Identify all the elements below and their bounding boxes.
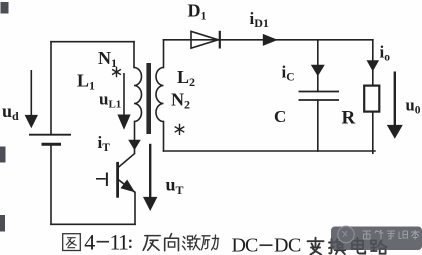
capacitor C plates — [299, 92, 340, 101]
caption char 换 — [329, 239, 345, 254]
wire top-left (battery loop to primary) — [51, 41, 134, 43]
watermark logo circle — [338, 226, 354, 242]
wire bottom-right rail — [164, 150, 376, 152]
polarity dot (asterisk) primary — [112, 67, 121, 77]
caption char 激 — [183, 235, 201, 250]
svg-text:1: 1 — [118, 229, 129, 254]
transistor collector diagonal — [119, 153, 136, 167]
caption char 图 — [63, 234, 81, 251]
wire capacitor branch lower — [317, 100, 319, 151]
wire resistor branch upper — [372, 40, 374, 86]
wire resistor branch lower — [372, 112, 374, 154]
caption char 变 — [308, 238, 324, 255]
wire primary bottom lead — [134, 122, 136, 154]
transistor body bar — [116, 162, 119, 198]
wire left vertical upper — [50, 42, 52, 134]
watermark small mark left-middle — [0, 147, 6, 163]
wire capacitor branch upper — [317, 40, 319, 92]
caption char 向 — [165, 234, 179, 251]
transistor V (switch) — [96, 153, 135, 198]
svg-text:D: D — [274, 235, 288, 255]
svg-text:D: D — [232, 235, 246, 255]
resistor R body — [364, 86, 379, 112]
svg-text:R: R — [342, 108, 356, 129]
arrow uT — [143, 144, 157, 211]
polarity dot (asterisk) secondary — [175, 124, 185, 135]
wire primary top lead — [133, 42, 135, 68]
transformer secondary winding L2/N2 — [156, 68, 163, 122]
caption char 路 — [371, 240, 387, 254]
svg-text:C: C — [245, 235, 258, 255]
arrow iT (on primary bottom lead) — [128, 140, 141, 150]
transistor gate lead — [96, 178, 106, 180]
wire secondary bottom lead — [163, 122, 165, 152]
transistor gate bar — [106, 173, 108, 187]
transformer core — [146, 63, 151, 134]
arrow io (on resistor branch) — [367, 60, 380, 71]
caption char 励 — [202, 235, 219, 250]
battery E (source ud) — [29, 135, 71, 145]
watermark text 硬件笔记本 — [363, 230, 420, 240]
wire bottom-left — [51, 223, 135, 225]
transistor emitter diagonal — [119, 180, 136, 193]
caption char 反 — [143, 236, 160, 251]
diode D1 — [191, 31, 220, 49]
watermark badge bottom-right — [331, 226, 422, 250]
arrow iC (on capacitor branch) — [311, 65, 325, 77]
wire emitter vertical — [134, 192, 136, 224]
svg-text:4: 4 — [84, 229, 95, 254]
caption char 电 — [352, 238, 365, 254]
arrow ud — [25, 70, 38, 128]
transformer primary winding L1/N1 — [134, 68, 142, 122]
caption: 图 4—11：反向激励 DC—DC 变换电路 — [63, 234, 387, 255]
transistor emitter arrowhead — [121, 180, 136, 193]
arrow iD1 (on diode rail) — [263, 34, 278, 46]
wire left vertical lower — [50, 145, 52, 225]
svg-text:C: C — [274, 107, 286, 126]
svg-text:C: C — [288, 235, 301, 255]
wire secondary top lead — [163, 40, 165, 68]
arrow u0 — [387, 72, 403, 139]
watermark small mark top-left — [1, 2, 9, 14]
arrow uL1 — [117, 73, 130, 130]
watermark small mark left-lower — [0, 215, 5, 232]
wire top-right (diode rail) — [164, 39, 373, 41]
